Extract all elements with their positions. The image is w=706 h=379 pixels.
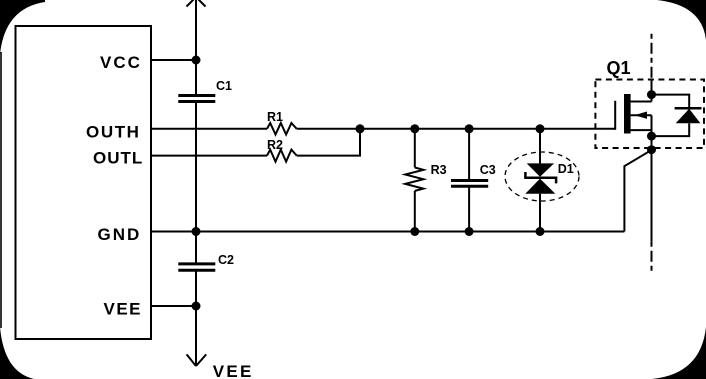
wire GND bus: [151, 231, 624, 233]
wire VEE pin to rail: [151, 305, 196, 307]
wire OUTL pin to R2: [151, 155, 267, 157]
svg-text:C2: C2: [218, 253, 234, 267]
node VEE-rail: [192, 302, 201, 311]
corner mask top-left: [0, 0, 45, 54]
corner mask top-right: [657, 0, 706, 40]
source dash-dot continuation down: [651, 242, 653, 272]
corner mask bottom-left: [0, 327, 34, 379]
svg-text:GND: GND: [98, 225, 142, 244]
node GND-rail: [192, 227, 201, 236]
svg-text:OUTL: OUTL: [93, 148, 143, 167]
VCC supply arrow: [187, 0, 206, 7]
Q1 dashed box: [595, 80, 704, 149]
svg-text:C1: C1: [216, 79, 232, 93]
node VCC-rail: [192, 56, 201, 65]
svg-text:R2: R2: [267, 138, 283, 152]
svg-text:R3: R3: [431, 163, 447, 177]
resistor R2: [267, 150, 297, 162]
node D1 top: [536, 124, 545, 133]
node R3 top: [410, 124, 419, 133]
node R3 bottom: [410, 227, 419, 236]
left edge scan line: [0, 52, 2, 328]
svg-text:R1: R1: [267, 110, 283, 124]
svg-text:C3: C3: [480, 163, 496, 177]
resistor R1: [267, 123, 297, 135]
svg-text:VEE: VEE: [213, 362, 254, 379]
wire VCC pin to rail: [151, 59, 196, 61]
D1 dashed ellipse: [505, 152, 579, 201]
node drain: [647, 90, 656, 99]
wire GND riser to source: [624, 150, 651, 232]
node R1-R2 junction: [356, 124, 365, 133]
wire R1 to gate bus: [297, 128, 616, 130]
VEE supply arrow: [187, 354, 207, 366]
wire OUTH pin to R1: [151, 128, 267, 130]
corner mask bottom-right: [652, 327, 706, 379]
wire C1 to GND node: [195, 102, 197, 264]
wire source down: [651, 136, 653, 242]
drain dash-dot continuation up: [651, 34, 653, 80]
TVS diode D1: [525, 129, 556, 232]
capacitor C2: [178, 264, 215, 270]
transistor Q1 MOSFET: [615, 94, 651, 136]
node C3 bottom: [465, 227, 474, 236]
svg-text:D1: D1: [558, 162, 574, 176]
resistor R3: [405, 129, 423, 232]
wire rail top to C1: [195, 0, 197, 95]
svg-text:VCC: VCC: [100, 53, 142, 72]
capacitor C1: [178, 96, 215, 102]
capacitor C3: [451, 129, 488, 232]
node D1 bottom: [536, 227, 545, 236]
node source: [647, 132, 656, 141]
body diode of Q1: [652, 95, 702, 137]
svg-text:OUTH: OUTH: [86, 123, 141, 142]
IC box U1: [16, 26, 152, 339]
wire R2 to junction: [297, 129, 360, 156]
wire drain: [651, 80, 653, 102]
node source-GND junction: [647, 145, 656, 154]
node C3 top: [465, 124, 474, 133]
svg-text:VEE: VEE: [104, 300, 143, 319]
svg-text:Q1: Q1: [607, 58, 631, 78]
wire C2 to VEE arrow: [195, 270, 197, 366]
